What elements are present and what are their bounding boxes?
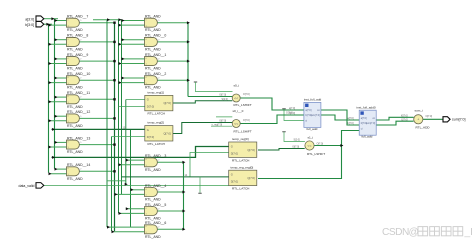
port symbol data_valid <box>36 183 44 189</box>
node junction a-bit <box>55 141 58 144</box>
svg-text:O[7:0]: O[7:0] <box>243 119 250 122</box>
node junction trunk183 <box>182 191 185 194</box>
wire s1_i O <box>314 145 341 147</box>
wire RTL_AND__14 output <box>79 170 115 172</box>
svg-text:O[7:0]: O[7:0] <box>426 115 433 118</box>
svg-text:G: G <box>231 173 233 177</box>
svg-text:RTL_AND__9: RTL_AND__9 <box>67 53 88 57</box>
wire b-bit to RTL_AND__8 I1 <box>49 43 67 45</box>
node junction b-bit <box>49 81 52 84</box>
wire bit to col2 AND 0 I0 <box>122 20 145 22</box>
node junction trunk183 <box>182 161 185 164</box>
node junction pp bus <box>113 143 115 145</box>
node junction col2b I1 <box>115 193 118 196</box>
wire trunk x188 down to shifter s0_i <box>187 23 189 97</box>
svg-text:RTL_AND: RTL_AND <box>145 15 161 19</box>
svg-text:RTL_LATCH: RTL_LATCH <box>148 112 165 116</box>
svg-text:I0[7:0]: I0[7:0] <box>220 94 227 97</box>
wire bit to col2 AND __3 I0 <box>126 159 145 161</box>
node junction enable line L2 <box>52 128 55 131</box>
svg-text:I0[7:0]: I0[7:0] <box>293 146 300 149</box>
svg-text:sum[7:0]: sum[7:0] <box>452 118 465 122</box>
module inst_full_add0 <box>359 110 376 135</box>
svg-text:b[3:0]: b[3:0] <box>25 23 34 27</box>
svg-text:RTL_AND__13: RTL_AND__13 <box>67 136 90 140</box>
node junction a-bit <box>55 19 58 22</box>
node junction col2 I0 <box>122 57 125 60</box>
latch temp_reg[0] <box>229 142 257 157</box>
node junction a-bit <box>55 115 58 118</box>
svg-text:RTL_AND__5: RTL_AND__5 <box>145 203 166 207</box>
node junction col2b I0 <box>126 159 129 162</box>
svg-text:RTL_AND__0: RTL_AND__0 <box>145 34 166 38</box>
svg-text:RTL_LATCH: RTL_LATCH <box>148 142 165 146</box>
wire to temp_reg[1] D <box>119 106 145 108</box>
wire vertical trunk x121.5 <box>121 20 123 194</box>
svg-text:RTL_AND__3: RTL_AND__3 <box>145 154 166 158</box>
wire bit to col2 AND 3 I0 <box>122 77 145 79</box>
svg-text:full_add: full_add <box>362 135 373 139</box>
and-gate RTL_AND__3 <box>145 158 160 167</box>
svg-text:a[7:0]: a[7:0] <box>289 107 295 110</box>
node junction pp bus <box>113 117 115 119</box>
svg-text:RTL_AND: RTL_AND <box>145 235 161 239</box>
node junction pp bus <box>113 79 115 81</box>
wire a-bit to RTL_AND__13 I0 <box>55 141 67 143</box>
node junction a-bit <box>55 57 58 60</box>
svg-text:RTL_AND: RTL_AND <box>67 28 83 32</box>
op-circle s0_i RTL_LSHIFT <box>232 94 240 102</box>
node junction col2b I1 <box>112 230 115 233</box>
svg-text:RTL_AND__11: RTL_AND__11 <box>67 91 90 95</box>
svg-text:a[7:0]: a[7:0] <box>305 109 311 112</box>
module inst_full_add <box>304 102 321 127</box>
svg-text:RTL_AND: RTL_AND <box>67 67 83 71</box>
svg-text:temp_reg_reg[0]: temp_reg_reg[0] <box>231 165 254 169</box>
wire inst_full_add co to inst_full_add0 b <box>321 110 359 125</box>
port symbol b[3:0] <box>36 21 44 27</box>
svg-text:+: + <box>417 118 419 122</box>
svg-text:I1[7:0]: I1[7:0] <box>401 118 408 121</box>
wire col2 AND 2 output <box>157 60 188 62</box>
node junction a-bit <box>55 38 58 41</box>
node junction b trunk <box>46 23 49 26</box>
op-circle sum_i RTL_ADD <box>414 115 423 124</box>
svg-text:sum_i: sum_i <box>415 108 424 112</box>
svg-text:RTL_AND__2: RTL_AND__2 <box>145 72 166 76</box>
svg-text:s0_i__0: s0_i__0 <box>233 109 244 113</box>
node junction trunk188 <box>187 60 190 63</box>
wire a-bit to RTL_AND__7 I0 <box>55 20 67 22</box>
node junction trunk188 <box>187 40 190 43</box>
latch temp_reg_reg[0] <box>229 170 257 185</box>
wire temp_reg[1] Q to s0_i S <box>173 101 232 103</box>
node stub const below bus <box>199 177 201 193</box>
wire to temp_reg[2] D <box>112 136 145 138</box>
wire temp_reg_reg Q up to inst_full_add0 ci <box>258 131 359 179</box>
wire col2 AND 0 output <box>157 22 188 24</box>
node junction trunk183 <box>182 228 185 231</box>
wire bit to col2 AND __4 I0 <box>131 189 145 191</box>
and-gate RTL_AND__11 <box>67 95 82 104</box>
svg-text:RTL_AND: RTL_AND <box>67 124 83 128</box>
and-gate RTL_AND__9 <box>67 57 82 66</box>
node junction trunk188 <box>187 21 190 24</box>
port symbol a[3:0] <box>36 16 44 22</box>
svg-text:RTL_AND: RTL_AND <box>145 198 161 202</box>
node junction pp bus <box>113 60 115 62</box>
svg-text:Q[7:0]: Q[7:0] <box>163 101 171 105</box>
and-gate RTL_AND__6 <box>145 225 160 234</box>
svg-text:a[7:0]: a[7:0] <box>361 117 367 120</box>
wire inst_full_add0 sum to sum_i I1 <box>376 121 413 125</box>
wire enable to temp_reg[2] G <box>52 128 145 130</box>
svg-text:temp_reg[0]: temp_reg[0] <box>232 137 249 141</box>
svg-text:D[7:0]: D[7:0] <box>147 135 154 139</box>
node junction a-bit <box>55 96 58 99</box>
wire a-bit to RTL_AND__12 I0 <box>55 115 67 117</box>
wire a[3:0] from port <box>44 18 59 20</box>
node junction pp bus <box>113 98 115 100</box>
svg-text:RTL_LSHIFT: RTL_LSHIFT <box>307 152 325 156</box>
svg-text:RTL_AND: RTL_AND <box>145 168 161 172</box>
and-gate RTL_AND__7 <box>67 18 82 27</box>
node junction a-bit <box>55 168 58 171</box>
svg-text:RTL_LATCH: RTL_LATCH <box>232 158 249 162</box>
svg-text:O[7:0]: O[7:0] <box>243 93 250 96</box>
svg-text:temp_reg[1]: temp_reg[1] <box>148 91 165 95</box>
svg-text:RTL_AND: RTL_AND <box>145 28 161 32</box>
wire a-bit to RTL_AND__11 I0 <box>55 96 67 98</box>
svg-text:<<: << <box>234 96 238 100</box>
wire RTL_AND__10 output <box>79 79 115 81</box>
svg-text:a[3:0]: a[3:0] <box>25 17 34 21</box>
node junction col2b I0 <box>126 207 129 210</box>
svg-text:inst_full_add: inst_full_add <box>304 98 322 102</box>
wire b-bit to RTL_AND__10 I1 <box>49 82 67 84</box>
wire inst_full_add sum to inst_full_add0 a <box>321 115 359 120</box>
wire b-bit to RTL_AND__13 I1 <box>49 146 67 148</box>
wire vertical trunk x130.5 <box>130 129 132 227</box>
wire a-bit to RTL_AND__10 I0 <box>55 77 67 79</box>
svg-text:CSDN: CSDN <box>382 227 409 238</box>
wire b-bit to RTL_AND__11 I1 <box>49 101 67 103</box>
wire bus vertical a net x54.5 <box>54 19 56 169</box>
svg-text:S[2:0]: S[2:0] <box>222 98 229 101</box>
wire b-bit to RTL_AND__12 I1 <box>49 120 67 122</box>
svg-text:RTL_AND: RTL_AND <box>145 47 161 51</box>
wire vertical trunk x107 <box>106 20 108 227</box>
wire col2 AND __5 output <box>157 210 184 212</box>
wire bit to col2 AND __4 I1 <box>115 193 145 195</box>
node junction a-bit <box>55 77 58 80</box>
node junction a-mid <box>107 18 110 21</box>
wire to s0_i_0 bottom pin <box>211 125 232 127</box>
svg-text:RTL_LSHIFT: RTL_LSHIFT <box>234 103 252 107</box>
node junction pp bus <box>113 170 115 172</box>
wire RTL_AND__9 output <box>79 60 115 62</box>
svg-text:s0_i: s0_i <box>234 83 240 87</box>
svg-text:D[7:0]: D[7:0] <box>231 180 238 184</box>
node junction pp bus <box>113 41 115 43</box>
wire bit to col2 AND __3 I1 <box>119 164 145 166</box>
wire bus to temp_reg_reg G <box>122 176 229 178</box>
wire const to inst_full_add ci <box>284 109 304 121</box>
and-gate RTL_AND__2 <box>145 76 160 85</box>
wire RTL_AND__7 output <box>79 22 115 24</box>
and-gate RTL_AND__10 <box>67 76 82 85</box>
node junction pp bus <box>113 22 115 24</box>
svg-text:RTL_LATCH: RTL_LATCH <box>232 187 249 191</box>
svg-text:RTL_AND: RTL_AND <box>67 150 83 154</box>
svg-text:@: @ <box>409 227 419 238</box>
node junction col2b I1 <box>119 212 122 215</box>
node junction b-bit <box>49 119 52 122</box>
svg-text:D[7:0]: D[7:0] <box>231 151 238 155</box>
wire col2 AND 3 output <box>157 79 188 81</box>
svg-text:<<: << <box>234 122 238 126</box>
wire const to s0_i top pin <box>196 82 233 92</box>
svg-text:b[7:0]: b[7:0] <box>348 122 354 125</box>
wire b-bit to RTL_AND__9 I1 <box>49 63 67 65</box>
node junction trunk183 <box>182 210 185 213</box>
node junction trunk188 <box>187 79 190 82</box>
wire to temp_reg[1] G <box>126 99 145 101</box>
svg-text:RTL_AND: RTL_AND <box>67 47 83 51</box>
and-gate RTL_AND__8 <box>67 37 82 46</box>
svg-text:I0[7:0]: I0[7:0] <box>401 115 408 118</box>
wire data_valid to temp_reg_reg D <box>43 184 229 186</box>
node junction b-bit <box>49 146 52 149</box>
port symbol sum[7:0] <box>443 117 450 122</box>
node junction b-bit <box>49 62 52 65</box>
wire a-bit to RTL_AND__14 I0 <box>55 168 67 170</box>
svg-text:RTL_AND__7: RTL_AND__7 <box>67 15 88 19</box>
wire b[3:0] from port <box>44 23 53 25</box>
svg-text:D[7:0]: D[7:0] <box>147 105 154 109</box>
node junction b-bit <box>49 100 52 103</box>
svg-text:RTL_AND: RTL_AND <box>67 105 83 109</box>
wire vertical enable riser x125.8 <box>125 100 127 186</box>
svg-text:RTL_AND__4: RTL_AND__4 <box>145 184 166 188</box>
wire bit to col2 AND __6 I0 <box>107 226 145 228</box>
svg-text:RTL_AND__10: RTL_AND__10 <box>67 72 90 76</box>
wire bit to col2 AND 1 I0 <box>122 39 145 41</box>
wire col2 AND 1 output <box>157 41 188 43</box>
svg-text:Q[7:0]: Q[7:0] <box>247 176 255 180</box>
wire RTL_AND__12 output <box>79 117 115 119</box>
svg-text:temp_reg[2]: temp_reg[2] <box>148 121 165 125</box>
svg-text:sum[7:0]: sum[7:0] <box>366 122 376 125</box>
wire a-bit to RTL_AND__8 I0 <box>55 39 67 41</box>
and-gate RTL_AND__5 <box>145 207 160 216</box>
and-gate RTL_AND <box>145 18 160 27</box>
and-gate RTL_AND__0 <box>145 37 160 46</box>
node junction col2 I1 <box>119 62 122 65</box>
node junction data_valid branch <box>125 183 128 186</box>
wire s0_i O to inst_full_add a <box>240 98 304 110</box>
node junction a trunk <box>51 17 54 20</box>
node junction a-mid2 <box>119 18 122 21</box>
wire bit to col2 AND 1 I1 <box>119 43 145 45</box>
svg-text:RTL_AND: RTL_AND <box>67 86 83 90</box>
op-circle s0_i_0 RTL_LSHIFT <box>232 120 240 128</box>
wire col2 AND __3 output <box>157 161 184 163</box>
wire bit to col2 AND 2 I1 <box>119 63 145 65</box>
latch temp_reg[1] <box>145 95 173 110</box>
svg-text:full_add: full_add <box>307 127 318 131</box>
wire s0_i_0 O to inst_full_add b <box>240 115 304 124</box>
svg-text:O[7:0]: O[7:0] <box>317 143 324 146</box>
svg-text:inst_full_add0: inst_full_add0 <box>357 105 376 109</box>
wire trunk x183.5 bottom products <box>183 162 185 229</box>
node junction b-bit <box>49 172 52 175</box>
wire temp_reg[0] Q to shifter I0 <box>258 149 305 151</box>
wire RTL_AND__8 output <box>79 41 115 43</box>
and-gate RTL_AND__1 <box>145 57 160 66</box>
wire col2 AND __6 output <box>157 228 184 230</box>
svg-text:RTL_LSHIFT: RTL_LSHIFT <box>234 130 252 134</box>
node junction col2b I0 <box>107 226 110 229</box>
node junction col2 I0 <box>122 38 125 41</box>
wire b-bit to RTL_AND__14 I1 <box>49 173 67 175</box>
latch temp_reg[2] <box>145 126 173 141</box>
wire a-bit to RTL_AND__9 I0 <box>55 58 67 60</box>
wire trunk to s0_i I1 <box>188 96 232 98</box>
and-gate RTL_AND__12 <box>67 114 82 123</box>
node junction col2 I1 <box>119 43 122 46</box>
svg-text:G: G <box>147 98 149 102</box>
svg-text:a[7:0]: a[7:0] <box>348 117 354 120</box>
and-gate RTL_AND__13 <box>67 140 82 149</box>
op-circle s1_i RTL_LSHIFT <box>305 141 314 150</box>
svg-text:sum[7:0]: sum[7:0] <box>311 114 321 117</box>
wire const to s1_i S <box>284 132 305 142</box>
node junction col2 I0 <box>122 77 125 80</box>
svg-text:RTL_AND__6: RTL_AND__6 <box>145 221 166 225</box>
svg-text:RTL_AND__14: RTL_AND__14 <box>67 163 90 167</box>
svg-text:RTL_AND: RTL_AND <box>145 86 161 90</box>
node junction b-bit <box>49 43 52 46</box>
svg-text:s1_i: s1_i <box>308 136 314 140</box>
wire inst_full_add0 co to sum_i I0 <box>376 117 413 120</box>
wire bus vertical b net x48.5 <box>48 24 50 172</box>
wire connector y180.8 <box>107 180 126 182</box>
svg-text:s_reg[7:0]: s_reg[7:0] <box>212 123 223 126</box>
svg-text:RTL_AND: RTL_AND <box>145 67 161 71</box>
node junction col2 I1 <box>119 24 122 27</box>
wire enable to temp_reg[0] G <box>52 147 229 158</box>
node junction col2 I0 <box>122 19 125 22</box>
svg-text:b[7:0]: b[7:0] <box>289 112 295 115</box>
wire sum_i O to output port <box>423 118 443 120</box>
wire col2 AND __4 output <box>157 191 184 193</box>
wire RTL_AND__11 output <box>79 98 115 100</box>
wire RTL_AND__13 output <box>79 144 115 146</box>
wire partial-product bus trunk x114.5 <box>114 23 116 231</box>
svg-text:RTL_AND__1: RTL_AND__1 <box>145 53 166 57</box>
svg-text:RTL_AND: RTL_AND <box>145 217 161 221</box>
wire to temp_reg[0] D <box>190 153 229 177</box>
wire b-bit to RTL_AND__7 I1 <box>49 24 67 26</box>
node stub const above shifter s1_i <box>282 131 285 133</box>
svg-text:I0[7:0]: I0[7:0] <box>220 120 227 123</box>
svg-text:_I: _I <box>464 227 474 238</box>
wire bit to col2 AND __5 I0 <box>126 208 145 210</box>
wire bit to col2 AND 2 I0 <box>122 58 145 60</box>
node junction col2 I1 <box>119 81 122 84</box>
wire vertical trunk x118.5 <box>118 20 120 213</box>
wire temp_reg[2] Q to s0_i_0 I0 <box>173 123 232 134</box>
node stub const above s0_i <box>194 81 197 83</box>
svg-text:RTL_AND: RTL_AND <box>67 177 83 181</box>
node junction enable line L3 <box>52 156 55 159</box>
svg-text:S[2:0]: S[2:0] <box>294 139 301 142</box>
svg-text:G: G <box>147 128 149 132</box>
node stub const above full_add ci <box>282 108 285 110</box>
wire a-bus feed to col2 verticals <box>93 19 122 21</box>
svg-text:RTL_ADD: RTL_ADD <box>416 126 431 130</box>
node junction s1_i output joins bus <box>340 144 343 147</box>
svg-text:G: G <box>231 144 233 148</box>
svg-text:Q[7:0]: Q[7:0] <box>163 131 171 135</box>
svg-text:<<: << <box>307 144 311 148</box>
node junction b-bit <box>49 24 52 27</box>
wire branch to s0_i_0 top pin <box>216 116 232 118</box>
svg-text:Q[7:0]: Q[7:0] <box>247 148 255 152</box>
wire bit to col2 AND __6 I1 <box>112 231 145 233</box>
wire vertical trunk x111.5 <box>111 137 113 232</box>
node junction col2b I1 <box>119 163 122 166</box>
wire bit to col2 AND 0 I1 <box>119 24 145 26</box>
and-gate RTL_AND__4 <box>145 188 160 197</box>
svg-text:data_valid: data_valid <box>19 184 35 188</box>
wire bit to col2 AND 3 I1 <box>119 82 145 84</box>
and-gate RTL_AND__14 <box>67 167 82 176</box>
node junction col2b I0 <box>131 188 134 191</box>
wire bit to col2 AND __5 I1 <box>119 212 145 214</box>
svg-text:RTL_AND__8: RTL_AND__8 <box>67 34 88 38</box>
svg-text:RTL_AND__12: RTL_AND__12 <box>67 110 90 114</box>
